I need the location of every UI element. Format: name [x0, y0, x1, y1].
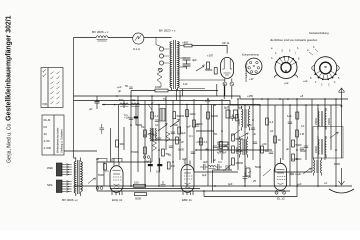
svg-text:4–500: 4–500 — [44, 146, 52, 150]
svg-text:4μF 4μF: 4μF 4μF — [217, 152, 227, 155]
svg-text:SPk: SPk — [47, 183, 53, 187]
resistor R12 horizontal — [134, 180, 146, 187]
capacitor C25 — [191, 152, 195, 154]
wire: transformer bottom drops — [177, 89, 183, 101]
resistor R1 — [151, 112, 159, 119]
svg-text:20: 20 — [96, 157, 99, 161]
wire: vertical drops center — [97, 91, 229, 192]
resistor R17 — [232, 134, 244, 141]
capacitor C1 on left bus — [89, 96, 100, 111]
capacitor C2 — [124, 113, 133, 120]
resistor R2 — [173, 112, 185, 119]
wire: mains left vertical — [73, 38, 75, 159]
wire: mid stub — [196, 130, 214, 132]
svg-text:μF: μF — [118, 89, 122, 93]
coupling chain — [200, 158, 222, 177]
svg-text:AZ 11: AZ 11 — [222, 41, 230, 45]
selector switch arm — [196, 65, 204, 71]
svg-text:+od: +od — [303, 80, 308, 83]
socket S2 leader arrows — [309, 49, 318, 55]
svg-text:10000: 10000 — [211, 114, 219, 118]
fuse F1 — [133, 33, 144, 44]
svg-text:μF: μF — [253, 132, 256, 136]
svg-text:6: 6 — [289, 50, 291, 53]
svg-text:100: 100 — [247, 123, 252, 127]
tube V3 — [274, 158, 286, 192]
tube V1 — [110, 159, 123, 196]
resistor R29 — [172, 123, 181, 134]
capacitor C3 — [153, 133, 161, 140]
svg-text:BV 4006 +x: BV 4006 +x — [62, 198, 78, 202]
capacitor C28 — [100, 124, 105, 134]
svg-text:70: 70 — [278, 138, 281, 142]
extra density labels — [141, 123, 340, 186]
svg-text:0,1: 0,1 — [124, 113, 128, 117]
svg-text:KU: KU — [44, 125, 48, 129]
capacitor C31 dark — [156, 158, 162, 174]
resistor R11 — [274, 136, 281, 143]
resistor R22 — [292, 140, 302, 147]
svg-text:b: b — [297, 47, 299, 50]
capacitor C9 — [300, 146, 308, 153]
svg-text:0,3: 0,3 — [204, 140, 208, 144]
switch contact K1 — [148, 103, 154, 111]
svg-text:25000: 25000 — [236, 149, 244, 153]
svg-text:4μF: 4μF — [192, 58, 197, 62]
svg-text:4: 4 — [275, 52, 277, 55]
band switch table text — [44, 118, 64, 153]
svg-text:400: 400 — [131, 98, 136, 102]
resistor R9 — [296, 130, 305, 137]
svg-text:1000: 1000 — [155, 85, 161, 89]
svg-text:+8: +8 — [300, 94, 304, 98]
zigzag resistor 2 — [153, 141, 179, 151]
coil block D right — [314, 158, 322, 176]
socket header text — [270, 31, 329, 42]
svg-text:a: a — [271, 47, 273, 50]
switch arm SW4 — [170, 119, 179, 127]
capacitor C8 — [288, 122, 292, 124]
svg-text:5000: 5000 — [135, 197, 141, 201]
svg-text:0,1: 0,1 — [155, 114, 159, 118]
svg-text:+1Γ: +1Γ — [249, 77, 254, 81]
svg-text:2: 2 — [321, 84, 323, 87]
electrolytic C11 — [234, 106, 243, 119]
svg-text:Gerja, Nied u. Co. Gestellklei: Gerja, Nied u. Co. Gestellkleinbauempfän… — [6, 15, 13, 163]
svg-text:4U: 4U — [44, 132, 47, 136]
capacitor C23 — [155, 120, 159, 122]
svg-text:50: 50 — [125, 84, 128, 88]
svg-text:Tlk: Tlk — [141, 125, 145, 129]
wire: bus A — [74, 96, 349, 99]
resistor R23 — [292, 154, 302, 161]
svg-text:0,1: 0,1 — [218, 160, 222, 164]
mains transformer T1 core — [173, 40, 175, 89]
svg-text:50000: 50000 — [177, 114, 185, 118]
switch arm SW6 — [303, 168, 311, 174]
resistor R6 — [144, 130, 154, 137]
resistor R13 horizontal — [135, 193, 147, 201]
capacitor C30 dark — [144, 158, 153, 172]
resistor R30 — [220, 142, 228, 149]
resistor R24 on bus C — [155, 85, 168, 92]
svg-text:0,1: 0,1 — [301, 124, 305, 128]
resistor R31 — [98, 164, 106, 178]
svg-text:μF: μF — [205, 147, 208, 151]
speaker — [329, 168, 354, 193]
svg-text:25000: 25000 — [315, 146, 318, 153]
svg-text:3: 3 — [328, 84, 330, 87]
svg-text:4–50: 4–50 — [44, 139, 50, 143]
wire: mid horizontal e — [151, 139, 181, 141]
svg-text:ECH 11: ECH 11 — [112, 198, 123, 202]
svg-text:5000: 5000 — [98, 173, 104, 177]
svg-text:100: 100 — [134, 180, 139, 184]
socket S1 pin labels — [271, 47, 300, 85]
svg-text:+500: +500 — [196, 140, 202, 144]
IF transformer 1 — [238, 106, 249, 131]
svg-text:0,1: 0,1 — [156, 171, 160, 174]
svg-text:4μF: 4μF — [203, 160, 208, 164]
svg-text:+497: +497 — [182, 41, 189, 45]
switch arm SW5 — [330, 132, 338, 138]
wire: bottom bus 2 — [97, 190, 290, 192]
tube socket S1 — [274, 56, 297, 79]
svg-text:5: 5 — [338, 77, 340, 80]
svg-text:5000: 5000 — [178, 148, 184, 152]
svg-text:BV 2006 + x: BV 2006 + x — [92, 30, 109, 34]
T1 secondary winding — [178, 42, 180, 91]
svg-text:112: 112 — [183, 82, 188, 86]
wire: bus C partial — [131, 90, 218, 92]
resistor R10 — [266, 118, 274, 125]
IFT2 switch arm — [240, 133, 248, 138]
capacitor C15 — [300, 148, 304, 150]
svg-text:8: 8 — [310, 77, 312, 80]
zigzag resistor — [166, 132, 170, 142]
svg-text:5000: 5000 — [334, 162, 340, 166]
svg-text:6,3V: 6,3V — [205, 99, 211, 103]
svg-text:300: 300 — [120, 142, 125, 146]
electrolytic C13 — [243, 171, 252, 182]
svg-text:0,1: 0,1 — [270, 129, 274, 133]
svg-text:6+6: 6+6 — [287, 114, 292, 118]
terminal circles — [143, 156, 150, 159]
svg-text:25000: 25000 — [328, 118, 331, 125]
electrolytic C10 — [224, 106, 230, 119]
svg-text:50000: 50000 — [236, 137, 244, 141]
capacitor C22 — [183, 64, 191, 69]
resistor R16 — [176, 137, 184, 144]
wire: mains top — [74, 37, 172, 39]
svg-text:Sockelschaltung: Sockelschaltung — [309, 31, 329, 35]
mains choke L1 — [96, 36, 108, 41]
output transformer T2 — [74, 158, 82, 197]
resistor R18 — [232, 146, 244, 153]
svg-text:V(0): V(0) — [42, 102, 47, 106]
resistor R7 — [200, 138, 208, 145]
svg-text:+μF: +μF — [297, 182, 302, 186]
svg-text:a: a — [307, 49, 309, 52]
resistor R32 — [207, 62, 210, 69]
capacitor C14 trimmer — [224, 165, 232, 172]
svg-text:7: 7 — [295, 53, 297, 56]
svg-text:1400: 1400 — [292, 157, 298, 161]
wire: return loop — [204, 186, 297, 197]
switch SW2 — [263, 169, 271, 176]
switch arm SW3 — [158, 123, 167, 131]
svg-text:10000: 10000 — [236, 161, 244, 165]
svg-text:0,1 A: 0,1 A — [133, 47, 140, 51]
coil block C right — [315, 136, 326, 158]
svg-text:3: 3 — [271, 57, 273, 60]
wire: box2 link — [64, 150, 97, 152]
band switch table box — [42, 115, 64, 155]
svg-text:+500: +500 — [172, 123, 178, 127]
svg-text:μF: μF — [286, 147, 289, 151]
resistor R5 — [207, 112, 219, 119]
wire: vertical drops right — [238, 99, 342, 186]
resistor pair R26 R27 — [217, 142, 228, 155]
svg-text:+F: +F — [324, 181, 328, 185]
capacitor C20 top — [117, 85, 133, 89]
svg-text:+255: +255 — [247, 94, 254, 98]
svg-text:25: 25 — [253, 179, 256, 183]
svg-text:+W: +W — [180, 140, 185, 144]
T1 secondary taps — [180, 46, 225, 89]
resistor R14 — [131, 147, 146, 154]
capacitor C4 — [171, 132, 175, 134]
svg-text:Wellenbereichschalter: Wellenbereichschalter — [56, 127, 60, 153]
coil L2 — [119, 98, 129, 106]
pickup jack hatched — [88, 178, 103, 190]
wire: bus B — [74, 101, 342, 106]
svg-text:70000: 70000 — [131, 150, 139, 154]
resistor R19 — [232, 158, 244, 165]
terminal strip box X1 — [41, 68, 63, 108]
tube V2 — [181, 159, 194, 196]
wire: bottom bus 1 — [74, 185, 353, 187]
svg-text:4μF: 4μF — [181, 131, 186, 135]
svg-text:1 M: 1 M — [300, 132, 305, 136]
capacitor C21 — [183, 58, 198, 64]
capacitor C27 — [269, 152, 273, 154]
capacitor C18 — [219, 150, 223, 152]
junction dots bus A right — [252, 98, 326, 106]
svg-text:+: + — [245, 165, 247, 168]
resistor R25 — [205, 68, 217, 75]
wire: feedback loop — [205, 170, 232, 191]
svg-text:1000: 1000 — [189, 112, 195, 116]
resistor R33 — [167, 162, 175, 169]
svg-text:60–M: 60–M — [44, 118, 51, 122]
svg-text:4μF: 4μF — [228, 182, 233, 186]
svg-text:1: 1 — [315, 81, 317, 84]
wire: mid horizontal a — [97, 161, 152, 163]
svg-text:EL 12: EL 12 — [277, 197, 285, 201]
svg-text:0,3: 0,3 — [270, 120, 274, 124]
svg-text:8μF: 8μF — [238, 106, 243, 110]
plug P2 — [56, 180, 71, 193]
svg-text:+μF: +μF — [186, 125, 191, 129]
plug P1 — [56, 163, 71, 176]
svg-text:b: b — [313, 46, 315, 49]
shield box right — [313, 127, 343, 159]
oscillator coil — [160, 109, 166, 122]
svg-text:1W: 1W — [171, 165, 175, 168]
tube V3 pin circles — [275, 191, 286, 194]
svg-text:1W: 1W — [223, 144, 227, 148]
coil block B right — [315, 108, 331, 130]
svg-text:+μF: +μF — [117, 85, 122, 89]
capacitor C24 — [169, 146, 173, 148]
resistor R28 — [287, 112, 299, 119]
rectifier tube V4 — [192, 46, 234, 100]
resistor R3 — [186, 110, 196, 117]
svg-text:500: 500 — [119, 98, 124, 102]
resistor R8 — [116, 140, 125, 147]
svg-text:Kompensierung: Kompensierung — [242, 54, 259, 57]
svg-text:die Röhren sind von rückwärts: die Röhren sind von rückwärts gesehen — [270, 38, 318, 42]
electrolytic C16 — [245, 165, 250, 176]
svg-text:50: 50 — [214, 132, 217, 136]
socket S2 pin labels — [303, 46, 340, 87]
svg-text:0,1: 0,1 — [105, 169, 109, 173]
tube socket S2 — [312, 57, 340, 81]
svg-text:BV 2023 + x: BV 2023 + x — [159, 29, 176, 33]
svg-text:Wkb: Wkb — [47, 166, 53, 170]
wire: bottom bus 3 — [110, 188, 200, 190]
T1 voltage selector taps — [156, 38, 169, 88]
svg-text:50000: 50000 — [205, 68, 213, 72]
svg-text:70000: 70000 — [315, 118, 318, 125]
svg-text:0,1: 0,1 — [168, 153, 172, 157]
capacitor C6 — [213, 146, 217, 148]
lamp socket — [246, 58, 262, 74]
T1 primary winding — [170, 42, 172, 91]
misc small labels — [96, 84, 328, 185]
IFT1 tuning caps — [231, 115, 239, 122]
switch SW1 — [232, 130, 240, 136]
svg-text:5000: 5000 — [255, 165, 261, 169]
svg-text:+197: +197 — [207, 54, 214, 58]
coil block A — [150, 128, 157, 141]
capacitor C12 — [161, 181, 166, 186]
svg-text:Stellung d. Schalters: Stellung d. Schalters — [60, 129, 64, 153]
svg-text:4μF: 4μF — [202, 173, 207, 177]
svg-text:300: 300 — [265, 149, 270, 153]
wire: mid horizontal c — [275, 171, 312, 173]
wire: heater bus — [102, 104, 260, 106]
svg-text:8μF: 8μF — [224, 106, 229, 110]
svg-text:μF: μF — [213, 158, 216, 162]
svg-text:+4μF: +4μF — [295, 172, 301, 176]
jack J1 — [97, 159, 122, 163]
svg-text:+4μF: +4μF — [144, 161, 150, 164]
svg-text:μF: μF — [89, 107, 93, 111]
capacitor C7 — [247, 123, 255, 130]
wire: rectifier heater drops — [217, 84, 224, 99]
resistor R4 — [193, 120, 203, 127]
IF transformer 2 — [236, 137, 247, 158]
resistor R21 — [182, 41, 192, 47]
coil L3 — [131, 98, 140, 106]
wire: mid horizontal b — [194, 171, 238, 173]
capacitor C5 — [186, 125, 199, 129]
antenna — [339, 88, 345, 107]
X1 contact arrows — [43, 69, 60, 104]
capacitor C29 — [290, 173, 294, 175]
svg-text:5: 5 — [282, 50, 284, 53]
svg-text:5000: 5000 — [296, 143, 302, 147]
svg-text:4: 4 — [334, 81, 336, 84]
capacitor C19 dark — [134, 105, 142, 126]
svg-text:5000: 5000 — [197, 122, 203, 126]
svg-text:4μF: 4μF — [182, 157, 187, 161]
svg-text:3,1: 3,1 — [155, 123, 159, 127]
svg-text:EBF 11: EBF 11 — [182, 198, 192, 202]
svg-text:+od: +od — [284, 82, 289, 85]
capacitor C26 — [253, 142, 257, 144]
resistor R15 — [162, 149, 171, 156]
svg-text:0,1: 0,1 — [189, 134, 193, 138]
svg-text:+50: +50 — [262, 142, 267, 146]
svg-text:8: 8 — [298, 58, 300, 61]
resistor R20 — [261, 146, 270, 153]
wire: mid horizontal d — [196, 149, 272, 151]
